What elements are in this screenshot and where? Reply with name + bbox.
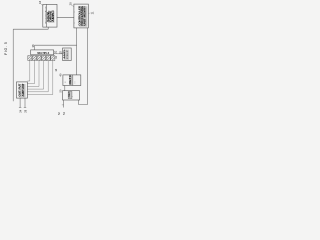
box F (bottom-right lower block) [63, 91, 80, 100]
transducer cell 6 [51, 56, 55, 61]
text underlay F inner [69, 92, 72, 98]
svg-text:AMPL: AMPL [63, 48, 66, 59]
inner box inside F [68, 92, 72, 99]
text underlay D2 [64, 50, 69, 60]
transducer cell 1 [28, 56, 32, 61]
wire array line 6 [27, 61, 52, 95]
terminal cap 1 [19, 106, 21, 108]
wire F bottom-left terminal [63, 100, 65, 108]
terminal line 1 below box D [19, 98, 21, 107]
lead line to box U2 [72, 5, 74, 6]
svg-text:20: 20 [69, 2, 73, 5]
box D2 (mid-right small block) [63, 48, 72, 61]
text underlay box E column [70, 76, 74, 86]
svg-text:DETC: DETC [69, 74, 72, 84]
svg-text:UNIT MEMRY: UNIT MEMRY [84, 5, 87, 25]
wire array line 3 [27, 61, 39, 87]
transducer array (hatched cells) [28, 56, 55, 61]
wire array line 2 [27, 61, 34, 84]
transducer cell 3 [37, 56, 41, 61]
text underlay U2 [79, 6, 87, 26]
lead tick to D2 left edge [61, 52, 62, 55]
box U2 (top-right block) [74, 4, 88, 28]
wire U1 right to U2 left [57, 17, 74, 19]
svg-text:16: 16 [38, 0, 42, 3]
wire array line 4 [27, 61, 43, 90]
arrow tick on terminal [62, 104, 64, 106]
inner divider of U1 [45, 4, 47, 27]
rotated text columns inside U1 [47, 10, 55, 22]
divider in box E [72, 75, 74, 86]
transducer cell 5 [46, 56, 50, 61]
svg-text:OSC: OSC [69, 91, 71, 97]
wire feedback loop from F to U2 [79, 28, 88, 105]
text underlay box D [19, 84, 25, 97]
box C (multiplexer block) [31, 50, 54, 55]
wire array line 1 [27, 61, 29, 82]
faint marks in box E right cell [74, 81, 76, 83]
wire stub from U1 bottom [47, 27, 49, 29]
terminal cap 2 [24, 106, 26, 108]
wire left bus vertical [12, 29, 14, 101]
svg-text:FILT: FILT [67, 48, 69, 59]
box E (bottom-right upper block) [63, 75, 81, 86]
svg-text:FIG. 5: FIG. 5 [4, 42, 8, 55]
wire horizontal upper-left [13, 28, 48, 30]
terminal line 2 below box D [24, 98, 26, 107]
lead line to box U1 [41, 4, 44, 6]
faint marks in box E left cell [65, 81, 67, 83]
wire bend down to box C top [34, 45, 36, 50]
svg-text:MULTIPLX: MULTIPLX [37, 53, 49, 55]
box U1 (top-left block) [43, 4, 57, 27]
text underlay U1 [48, 11, 54, 23]
wire mid horizontal bus [35, 44, 77, 46]
wire vertical from U2 bottom down to box E [76, 28, 78, 75]
svg-text:AMP UNT: AMP UNT [22, 83, 25, 97]
transducer cell 2 [32, 56, 36, 61]
svg-text:AMPLI: AMPLI [52, 10, 55, 22]
transducer cell 4 [42, 56, 46, 61]
svg-text:OUT PUT: OUT PUT [20, 83, 22, 97]
wire array line 5 [27, 61, 48, 92]
box D (bottom-left block) [17, 82, 28, 98]
rotated text columns inside U2 [79, 5, 87, 25]
wire box C to box D2 [54, 53, 63, 55]
wire stub E to F [64, 86, 66, 91]
lead tick to U2 right edge [88, 12, 91, 15]
faint marks left half of U2 [74, 11, 76, 24]
svg-text:INTERFACE: INTERFACE [44, 5, 47, 24]
